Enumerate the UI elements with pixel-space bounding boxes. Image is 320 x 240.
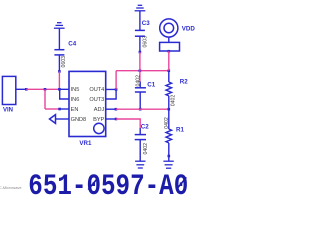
wire BYP net [116, 119, 140, 128]
wire C4 to IN5 [58, 71, 60, 89]
svg-text:0402: 0402 [143, 143, 149, 155]
svg-text:R2: R2 [180, 78, 188, 85]
wire arrow to GND8 pin [56, 118, 70, 120]
wire ADJ net [116, 108, 169, 110]
svg-text:VDD: VDD [182, 26, 196, 33]
svg-text:0603: 0603 [61, 56, 67, 68]
pin stub C2 top [139, 128, 141, 135]
junction dot bus/C-column [139, 69, 142, 72]
wire ground to C4 [58, 28, 60, 49]
svg-text:0402: 0402 [170, 95, 176, 107]
svg-text:GND8: GND8 [71, 117, 87, 123]
junction dot C1/ADJ net [139, 108, 142, 111]
wire bridge OUT4-OUT3 [106, 89, 116, 99]
svg-text:IN6: IN6 [71, 97, 80, 103]
junction dot C4/net [58, 70, 61, 73]
junction dot BYP stub end [115, 118, 118, 121]
capacitor C3 [135, 30, 145, 36]
capacitor C1 column: wire bus to C1 [139, 71, 141, 82]
svg-text:0402: 0402 [164, 117, 170, 129]
svg-text:C4: C4 [68, 40, 76, 47]
wire C3 to bus [139, 52, 141, 71]
junction dot at VIN stub end [25, 88, 28, 91]
pin stub C4 bottom [58, 55, 60, 72]
pin stub of VIN port [16, 88, 26, 90]
pin stub C3 bottom [139, 36, 141, 52]
capacitor C1 [135, 88, 146, 92]
port VIN [2, 76, 15, 104]
junction dot box bottom [168, 50, 171, 53]
svg-text:C1: C1 [147, 81, 155, 88]
wire VDD bus horizontal [116, 70, 169, 72]
pin stub EN [60, 108, 70, 110]
wire VDD bus drop to OUT4 [115, 71, 117, 90]
ground (top, for C3) [135, 5, 146, 11]
junction dot ADJ/R column [168, 108, 171, 111]
pin stub C1 bottom [139, 92, 141, 109]
ground (bottom, for R1) [163, 161, 173, 168]
wire EN branch horizontal [45, 108, 60, 110]
junction dot at EN stub end [58, 108, 61, 111]
junction dot OUT4 node [115, 88, 118, 91]
svg-text:C-Microwave: C-Microwave [0, 185, 22, 190]
slash of zero in 0597 [88, 177, 98, 189]
svg-text:OUT3: OUT3 [89, 97, 104, 103]
pin stub BYP [106, 118, 116, 120]
svg-text:0402: 0402 [135, 75, 141, 87]
enable arrow symbol at GND8 [50, 115, 56, 124]
svg-text:VR1: VR1 [79, 140, 92, 147]
wire ground to C3 [139, 11, 141, 31]
svg-text:EN: EN [71, 107, 79, 113]
wire VDD stem [168, 37, 170, 42]
junction dot R1 bottom [168, 155, 171, 158]
junction dot bus/R2 [168, 69, 171, 72]
pin stub C1 top [139, 82, 141, 88]
IC VR1 body [69, 71, 106, 136]
svg-text:BYP: BYP [93, 117, 104, 123]
junction node A dot [44, 88, 47, 91]
pin stub C2 bottom [139, 140, 141, 162]
svg-text:0603: 0603 [143, 36, 149, 48]
svg-text:651-0597-A0: 651-0597-A0 [28, 171, 188, 200]
IC circle mark [94, 123, 104, 133]
component box under VDD [160, 42, 180, 51]
pin stub ADJ [106, 108, 116, 110]
svg-text:IN5: IN5 [71, 87, 80, 93]
svg-text:R1: R1 [176, 127, 184, 134]
wire EN branch vertical [44, 89, 46, 109]
ground (bottom, for C2) [135, 161, 145, 168]
capacitor C4 [54, 50, 64, 55]
resistor R2 [166, 71, 172, 110]
svg-text:C2: C2 [141, 124, 149, 131]
junction dot C3/net [139, 51, 142, 54]
resistor R1 [166, 109, 172, 161]
slash of zero in A0 [176, 177, 186, 189]
capacitor C2 [135, 135, 146, 140]
svg-text:OUT4: OUT4 [89, 87, 104, 93]
wire box to bus [168, 51, 170, 70]
junction dot IN5 node [58, 88, 61, 91]
junction dot ADJ stub end [115, 108, 118, 111]
svg-text:ADJ: ADJ [94, 107, 105, 113]
power symbol VDD [160, 19, 178, 37]
svg-text:C3: C3 [142, 20, 150, 27]
wire VIN net horizontal [26, 88, 60, 90]
ground (top left, for C4) [54, 23, 65, 29]
svg-text:VIN: VIN [3, 107, 13, 113]
wire bridge IN5-IN6 [60, 89, 69, 99]
